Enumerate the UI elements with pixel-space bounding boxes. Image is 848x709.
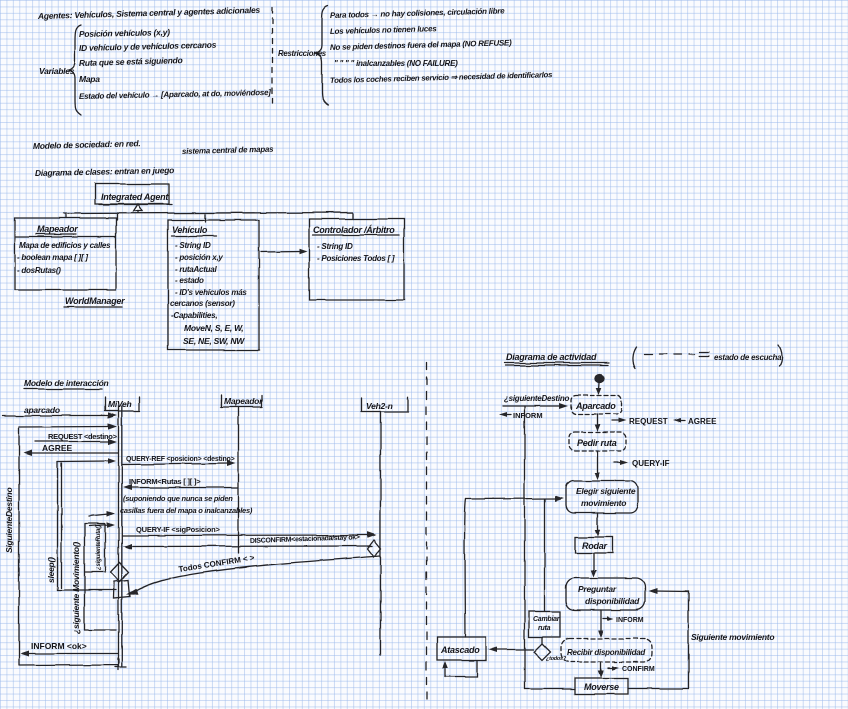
svg-text:Recibir disponibilidad: Recibir disponibilidad	[567, 648, 646, 657]
svg-text:QUERY-IF: QUERY-IF	[632, 459, 670, 468]
arrow self1	[89, 514, 109, 516]
svg-text:Rodar: Rodar	[582, 541, 608, 551]
svg-text:- posición x,y: - posición x,y	[175, 253, 223, 262]
arrow rodar-preguntar	[593, 553, 595, 571]
underline controlador title	[313, 234, 399, 236]
box moverse	[575, 678, 628, 694]
legend parens	[632, 345, 781, 368]
arrow pedir-elegir	[597, 451, 599, 474]
svg-text:disponibilidad: disponibilidad	[585, 596, 640, 606]
svg-text:Restricciones: Restricciones	[278, 49, 327, 58]
svg-text:¿siguienteDestino: ¿siguienteDestino	[504, 394, 569, 403]
arrow request-glyph	[612, 420, 622, 422]
arrow aparcado msg	[3, 415, 110, 417]
svg-text:(suponiendo que nunca se piden: (suponiendo que nunca se piden	[123, 494, 233, 503]
svg-text:- estado: - estado	[175, 276, 204, 285]
brace variables	[69, 25, 81, 115]
svg-text:INFORM: INFORM	[513, 411, 543, 420]
divider dashed top	[271, 8, 273, 103]
box rodar	[575, 537, 613, 553]
svg-text:CONFIRM: CONFIRM	[622, 666, 655, 673]
box aparcado dashed	[571, 396, 621, 415]
svg-text:AGREE: AGREE	[688, 417, 717, 426]
lifeline mapeador	[238, 408, 240, 553]
diamond veh2n	[368, 540, 382, 557]
line mov-bottom	[85, 629, 117, 631]
svg-text:No se piden destinos fuera del: No se piden destinos fuera del mapa (NO …	[330, 38, 512, 52]
arrow sigdestino-aparcado	[503, 405, 561, 407]
arrow into elegir	[466, 498, 557, 501]
arrow sleep-top	[58, 460, 111, 463]
underline modelo interaccion	[24, 388, 103, 390]
svg-text:Aparcado: Aparcado	[575, 401, 616, 411]
svg-text:Agentes: Vehículos, Sistema c: Agentes: Vehículos, Sistema central y ag…	[37, 5, 261, 21]
arrow diamond-atascado	[494, 649, 533, 651]
arrow aparcado-pedir	[597, 414, 599, 426]
legend dashes	[644, 353, 694, 355]
svg-text:- Posiciones Todos [ ]: - Posiciones Todos [ ]	[317, 254, 395, 263]
svg-text:movimiento: movimiento	[581, 498, 626, 508]
svg-text:Diagrama de clases: entran en: Diagrama de clases: entran en juego	[35, 165, 174, 178]
loop cambiar vertical	[544, 499, 546, 611]
svg-text:Para todos → no hay colisiones: Para todos → no hay colisiones, circulac…	[330, 6, 505, 20]
arrow inform-left	[503, 414, 511, 416]
loop atascado vertical	[465, 499, 466, 637]
arrow inform-glyph2	[603, 618, 610, 620]
svg-text:- String ID: - String ID	[317, 242, 353, 251]
svg-text:aparcado: aparcado	[24, 405, 60, 415]
arrow self2	[89, 525, 109, 527]
arrow vehiculo-controlador	[261, 251, 303, 254]
svg-text:- rutaActual: - rutaActual	[175, 265, 217, 274]
arrow request	[35, 441, 110, 443]
lifeline miveh activation	[115, 406, 126, 667]
svg-text:Variables: Variables	[39, 66, 75, 76]
arrow elegir-rodar	[597, 513, 599, 531]
svg-text:SE, NE, SW, NW: SE, NE, SW, NW	[183, 336, 245, 346]
svg-text:Ruta que se está siguiendo: Ruta que se está siguiendo	[79, 55, 183, 68]
underline mapeador title	[36, 233, 76, 235]
svg-text:AGREE: AGREE	[42, 443, 73, 453]
svg-text:Diagrama de actividad: Diagrama de actividad	[506, 352, 597, 362]
divider dashed activity	[426, 362, 428, 700]
box cambiar ruta	[529, 612, 560, 638]
svg-text:Preguntar: Preguntar	[578, 584, 617, 594]
svg-text:Estado del vehículo → [Aparcad: Estado del vehículo → [Aparcado, at do, …	[79, 88, 271, 101]
underline vehiculo title	[172, 235, 216, 237]
svg-text:- boolean mapa [ ][ ]: - boolean mapa [ ][ ]	[17, 253, 88, 262]
legend equals	[699, 352, 709, 356]
svg-text:Mapa: Mapa	[79, 74, 100, 84]
arrow disconfirm	[130, 545, 372, 548]
lifeline veh2n	[380, 413, 382, 655]
loop left long	[524, 406, 526, 689]
link diamond-cambiar	[541, 637, 543, 644]
box preguntar	[566, 578, 645, 610]
arrow inform-ok	[27, 653, 118, 655]
svg-text:Veh2-n: Veh2-n	[366, 401, 393, 411]
diamond todos	[534, 644, 551, 661]
arrow inform-rutas	[130, 487, 238, 489]
svg-text:ruta: ruta	[538, 625, 551, 632]
svg-text:" " " " i: " " " " inalcanzables (NO FAILURE)	[334, 59, 458, 68]
arrow query-if	[122, 534, 369, 537]
arrow preguntar-recibir	[600, 610, 602, 632]
svg-text:Mapa de edificios y calles: Mapa de edificios y calles	[19, 241, 111, 250]
arrow confirm-glyph	[608, 667, 615, 669]
svg-text:Modelo de sociedad: en red.: Modelo de sociedad: en red.	[33, 138, 141, 151]
header miveh	[105, 397, 140, 411]
svg-text:INFORM: INFORM	[616, 617, 644, 624]
arrow queryif-glyph	[614, 462, 624, 464]
box integrated agent	[95, 184, 169, 204]
svg-text:REQUEST: REQUEST	[629, 417, 668, 426]
svg-text:Posición vehículos (x,y): Posición vehículos (x,y)	[79, 27, 170, 39]
svg-text:Pedir ruta: Pedir ruta	[577, 438, 617, 448]
triangle inheritance	[134, 204, 143, 211]
underline worldmanager	[64, 306, 122, 308]
svg-text:- ID's vehículos más: - ID's vehículos más	[175, 288, 247, 297]
arrow recibir-moverse	[600, 662, 602, 672]
svg-text:¿todos?: ¿todos?	[546, 656, 567, 662]
box recibir dashed	[561, 639, 652, 663]
initial node	[594, 374, 604, 383]
underline diagrama actividad	[505, 363, 609, 366]
svg-text:casillas fuera del mapa o inal: casillas fuera del mapa o inalcanzables)	[120, 506, 253, 515]
header veh2n	[361, 398, 408, 412]
svg-text:MiVeh: MiVeh	[108, 399, 132, 409]
svg-text:QUERY-REF <posicion> <destino>: QUERY-REF <posicion> <destino>	[126, 456, 235, 463]
svg-text:Elegir siguiente: Elegir siguiente	[576, 486, 636, 496]
arrow frame-top	[19, 426, 110, 429]
svg-text:-Capabilities,: -Capabilities,	[171, 311, 217, 320]
atascado self loop	[445, 660, 477, 677]
box elegir	[566, 481, 638, 514]
svg-text:WorldManager: WorldManager	[65, 296, 125, 306]
svg-text:Integrated Agent: Integrated Agent	[101, 192, 169, 202]
box siguienteruta	[85, 524, 106, 631]
svg-text:Modelo de interacción: Modelo de interacción	[24, 378, 109, 388]
svg-text:Vehículo: Vehículo	[172, 225, 208, 235]
box pedir ruta dashed	[569, 432, 626, 451]
arrow init-aparcado	[598, 383, 601, 390]
svg-text:INFORM<Rutas [ ][ ]>: INFORM<Rutas [ ][ ]>	[129, 477, 201, 486]
box mapeador	[15, 218, 116, 290]
svg-text:Cambiar: Cambiar	[533, 616, 561, 623]
loop right	[653, 591, 689, 689]
svg-text:Atascado: Atascado	[440, 645, 480, 655]
svg-text:QUERY-IF <sigPosicion>: QUERY-IF <sigPosicion>	[136, 525, 220, 534]
box vehiculo	[168, 220, 259, 350]
svg-text:Todos los coches reciben servi: Todos los coches reciben servicio ⇒ nece…	[330, 70, 553, 85]
sleep box	[58, 462, 62, 591]
svg-text:estado de escucha: estado de escucha	[714, 353, 782, 362]
svg-text:Mapeador: Mapeador	[224, 396, 263, 406]
arrow query-ref	[122, 464, 230, 465]
box atascado	[437, 637, 486, 660]
bottom loop lines	[525, 688, 689, 691]
pentagon below diamond	[114, 580, 130, 598]
svg-text:ID vehículo y de vehículos cer: ID vehículo y de vehículos cercanos	[79, 40, 217, 53]
svg-text:¿siguiente Movimiento(): ¿siguiente Movimiento()	[71, 542, 81, 634]
svg-text:Moverse: Moverse	[584, 682, 619, 692]
connector class tree	[64, 211, 353, 222]
svg-text:sleep(): sleep()	[46, 557, 56, 583]
svg-text:¿siguienteRuta(): ¿siguienteRuta()	[95, 525, 102, 570]
box controlador	[309, 219, 404, 300]
brace restricciones	[316, 6, 328, 105]
svg-text:- dosRutas(): - dosRutas()	[17, 266, 61, 275]
svg-text:Controlador /Árbitro: Controlador /Árbitro	[313, 225, 395, 235]
line sleep-bottom	[58, 589, 117, 591]
svg-text:sistema central de mapas: sistema central de mapas	[182, 145, 274, 156]
diamond miveh	[111, 563, 129, 582]
curve todos-confirm	[134, 556, 380, 592]
svg-text:Siguiente movimiento: Siguiente movimiento	[691, 632, 774, 642]
svg-text:SiguienteDestino: SiguienteDestino	[4, 488, 14, 553]
svg-text:MoveN, S, E, W,: MoveN, S, E, W,	[184, 323, 243, 333]
arrow agree-glyph	[677, 420, 685, 422]
svg-text:REQUEST <destino>: REQUEST <destino>	[48, 432, 118, 441]
svg-text:Mapeador: Mapeador	[37, 224, 78, 234]
svg-text:INFORM <ok>: INFORM <ok>	[31, 641, 87, 651]
header mapeador2	[221, 395, 262, 407]
svg-text:- String ID: - String ID	[175, 241, 211, 250]
svg-text:cercanos (sensor): cercanos (sensor)	[170, 299, 235, 308]
svg-text:Los vehículos no tienen luces: Los vehículos no tienen luces	[330, 24, 438, 36]
arrow agree	[30, 452, 118, 454]
frame siguientedestino	[19, 427, 118, 670]
